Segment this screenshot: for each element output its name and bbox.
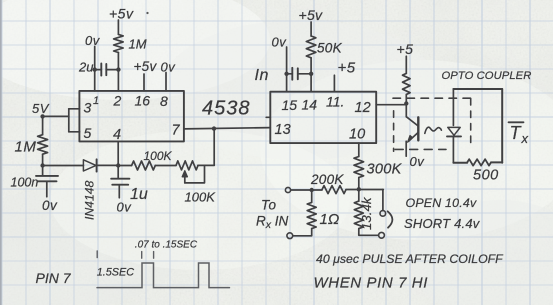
svg-text:+5v: +5v [109,6,134,22]
svg-text:500: 500 [473,168,499,184]
svg-text:16: 16 [135,93,151,109]
svg-text:.07 to .15SEC: .07 to .15SEC [135,240,198,251]
svg-text:4: 4 [113,127,121,143]
svg-text:100K: 100K [185,190,217,205]
svg-text:0v: 0v [410,154,426,169]
svg-text:13.4k: 13.4k [359,196,374,230]
svg-text:200K: 200K [310,172,344,187]
svg-text:4538: 4538 [202,98,251,120]
svg-text:40 μsec PULSE AFTER COILOFF: 40 μsec PULSE AFTER COILOFF [316,252,504,266]
svg-text:PIN 7: PIN 7 [36,270,72,286]
svg-text:0v: 0v [161,60,177,75]
svg-text:To: To [261,198,277,213]
svg-text:13: 13 [275,122,291,138]
svg-text:+5v: +5v [299,7,324,23]
svg-text:2u: 2u [78,60,93,75]
svg-text:15: 15 [282,97,298,113]
svg-text:100K: 100K [144,149,173,163]
svg-text:In: In [255,67,269,84]
svg-text:8: 8 [160,93,168,109]
svg-text:12: 12 [355,100,371,116]
svg-text:1: 1 [93,95,99,107]
svg-text:Rx IN: Rx IN [256,214,289,232]
svg-text:11.: 11. [326,94,344,110]
svg-text:SHORT 4.4v: SHORT 4.4v [404,216,481,231]
svg-text:10: 10 [349,127,365,143]
svg-text:1.5SEC: 1.5SEC [97,267,134,279]
svg-text:2: 2 [113,93,122,109]
svg-text:300K: 300K [367,162,403,178]
svg-text:1M: 1M [129,37,147,52]
svg-text:+5: +5 [338,60,356,77]
svg-text:x: x [521,131,529,146]
svg-text:+5v: +5v [134,59,158,74]
svg-text:3: 3 [84,100,92,116]
svg-text:1M: 1M [15,139,37,156]
svg-text:+5: +5 [397,41,414,57]
svg-text:7: 7 [172,123,181,139]
svg-text:5V: 5V [32,101,50,116]
svg-text:OPEN 10.4v: OPEN 10.4v [406,196,477,210]
svg-text:14: 14 [302,97,318,113]
svg-text:IN4148: IN4148 [83,180,97,220]
svg-text:WHEN PIN 7 HI: WHEN PIN 7 HI [314,275,428,292]
svg-text:0v: 0v [117,200,133,215]
svg-text:0v: 0v [42,198,58,213]
svg-text:1u: 1u [130,186,148,203]
svg-text:50K: 50K [317,41,343,56]
svg-text:100n: 100n [11,176,39,190]
svg-text:5: 5 [84,125,92,141]
svg-text:1Ω: 1Ω [320,211,340,228]
svg-text:0v: 0v [272,35,288,50]
svg-text:0v: 0v [85,33,101,48]
svg-text:OPTO COUPLER: OPTO COUPLER [442,70,532,82]
